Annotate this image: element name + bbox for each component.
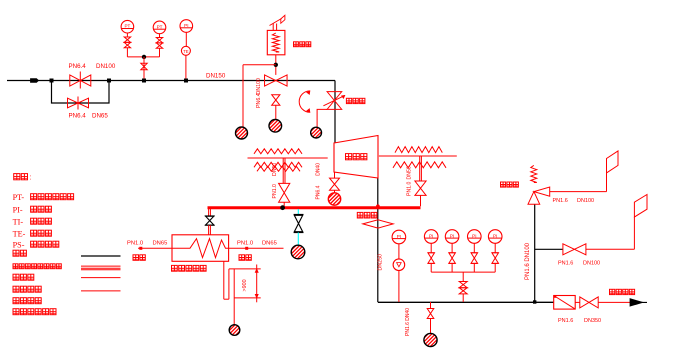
svg-text:PI: PI <box>493 233 497 238</box>
svg-text:DN65: DN65 <box>262 241 277 247</box>
svg-text:PI: PI <box>450 233 454 238</box>
svg-text:TE-: TE- <box>13 230 26 239</box>
svg-text:PN1.6 DN100: PN1.6 DN100 <box>525 242 531 280</box>
svg-text:PN1.6: PN1.6 <box>558 261 573 267</box>
svg-text:PN1.6: PN1.6 <box>558 318 573 324</box>
svg-text:PI: PI <box>184 23 188 28</box>
svg-text:PI: PI <box>472 233 476 238</box>
svg-text:PN1.0: PN1.0 <box>407 181 413 196</box>
svg-text:PT-: PT- <box>13 193 25 202</box>
svg-text:DN350: DN350 <box>584 318 601 324</box>
svg-text:PS-: PS- <box>13 241 25 250</box>
svg-text:PI-: PI- <box>13 206 23 215</box>
svg-text::: : <box>30 175 32 182</box>
svg-text:PN1.0: PN1.0 <box>237 241 253 247</box>
svg-text:PT: PT <box>124 24 130 29</box>
svg-text:DN100: DN100 <box>256 78 262 95</box>
svg-text:DN100: DN100 <box>96 63 116 70</box>
svg-text:DN65: DN65 <box>153 241 168 247</box>
svg-text:PN1.6 DN40: PN1.6 DN40 <box>405 308 411 336</box>
svg-text:DN50: DN50 <box>407 166 413 179</box>
svg-text:DN150: DN150 <box>206 73 226 80</box>
svg-text:DN40: DN40 <box>316 163 322 176</box>
svg-text:TI-: TI- <box>13 218 24 227</box>
svg-text:TE: TE <box>183 49 189 54</box>
svg-text:DN250: DN250 <box>378 254 384 271</box>
svg-text:PN6.4: PN6.4 <box>69 113 87 120</box>
svg-text:DN50: DN50 <box>272 163 278 176</box>
svg-text:PN1.0: PN1.0 <box>127 241 143 247</box>
svg-text:PN1.6: PN1.6 <box>553 198 568 204</box>
svg-text:PN1.0: PN1.0 <box>272 184 278 199</box>
svg-text:>900: >900 <box>242 279 248 291</box>
svg-text:PN6.4: PN6.4 <box>69 63 87 70</box>
svg-text:DN100: DN100 <box>583 261 600 267</box>
svg-text:PN6.4: PN6.4 <box>256 93 262 108</box>
svg-text:DN100: DN100 <box>577 198 594 204</box>
svg-text:PI: PI <box>429 233 433 238</box>
svg-text:PI: PI <box>397 234 401 239</box>
svg-text:DN65: DN65 <box>92 113 108 120</box>
svg-text:PN6.4: PN6.4 <box>316 185 322 199</box>
svg-text:PT: PT <box>157 24 163 29</box>
